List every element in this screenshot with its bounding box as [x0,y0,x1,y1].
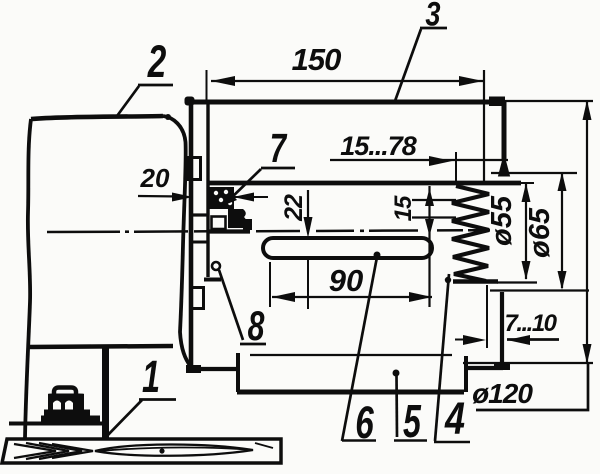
svg-text:15...78: 15...78 [340,131,417,161]
svg-text:8: 8 [248,302,265,349]
dimension 15...78 [330,152,508,185]
svg-text:ø120: ø120 [472,378,533,409]
mounting bolt and nut on bracket [9,388,103,424]
slot part 6 [263,238,432,258]
svg-text:ø55: ø55 [486,195,518,246]
dimension 15 vertical [412,186,456,307]
callout 3 [395,28,447,101]
dimension 90 [270,262,432,307]
callout 1 [104,400,176,440]
svg-text:22: 22 [280,194,308,222]
svg-text:ø65: ø65 [524,207,556,258]
callout 7 with arrow [222,168,295,206]
dimension 7...10 [455,285,559,348]
callout 5 with dot [393,370,428,441]
svg-text:15: 15 [390,195,417,221]
electric motor body part 2 [25,114,191,438]
callout 6 with dot [342,252,381,442]
dimension dia120 overall [463,100,593,410]
svg-text:7: 7 [270,125,288,171]
dimension dia65 [490,172,589,291]
svg-text:150: 150 [292,42,341,77]
svg-text:90: 90 [329,263,363,298]
dimension 150 [207,70,485,183]
dimension 20 [138,193,268,202]
drum left wall part 3 [186,99,221,373]
support column under motor [102,348,109,439]
svg-text:5: 5 [403,396,422,447]
svg-text:1: 1 [142,353,160,402]
callout 4 [434,274,470,442]
svg-text:3: 3 [425,0,440,33]
wooden base board part 1 [2,439,281,463]
svg-text:20: 20 [140,163,170,193]
svg-text:4: 4 [444,393,465,444]
clamp knob detail part 7 [208,187,252,232]
drum shell part 3 top and right [185,97,535,393]
svg-text:7...10: 7...10 [504,310,557,337]
callout 2 [117,85,173,116]
svg-text:6: 6 [355,398,374,448]
callout 8 with hole [212,262,266,344]
svg-text:2: 2 [147,37,166,87]
dimension 22 [304,190,313,309]
dimension dia55 [497,183,537,283]
axis centerline [47,230,490,232]
spring part 4 [452,186,498,282]
